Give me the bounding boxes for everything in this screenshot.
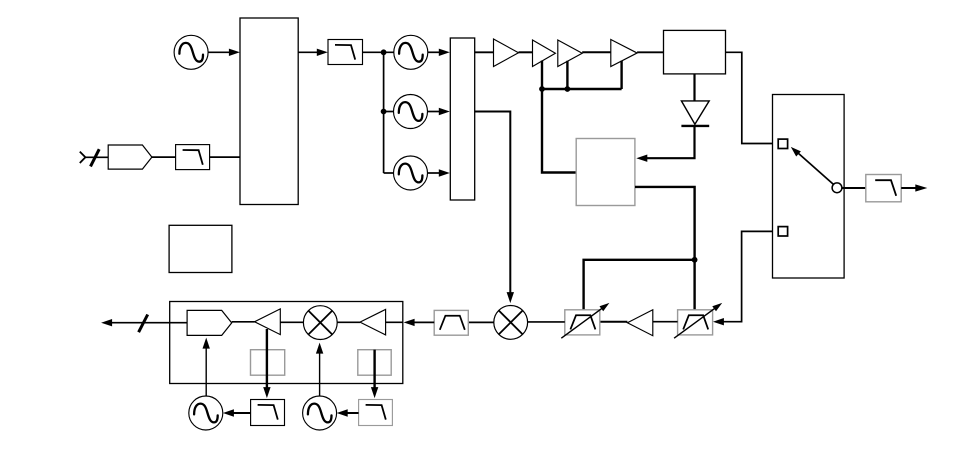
wire switch S1 port 2 to attenuator AT2 input: [723, 231, 773, 321]
wire U1 to filter F2: [298, 51, 317, 53]
switch S1 contact square 1: [778, 139, 787, 148]
wire D1 to ALC U4: [647, 126, 695, 158]
variable attenuator AT2: [678, 310, 713, 335]
input chevron (off-page connector): [80, 152, 86, 163]
wire A4 to buffer A5: [582, 51, 611, 53]
mixer M1: [494, 306, 528, 340]
output driver A9 (pentagon): [187, 310, 232, 335]
wire AT1 to mixer M1: [528, 321, 565, 323]
wire to G3: [384, 111, 394, 113]
oscillator G4: [394, 156, 428, 190]
wire feedback down to ALC U4: [542, 89, 576, 173]
wire AT2 to amplifier A6: [653, 321, 678, 323]
variable attenuator AT1: [565, 310, 600, 335]
buffer amplifier A5: [611, 40, 637, 67]
junction node feedback 1: [539, 86, 545, 92]
low-pass filter F4: [251, 400, 285, 426]
divider block X1: [251, 350, 285, 376]
output wire with arrow: [901, 187, 916, 189]
wire osc G5 up to A9: [205, 348, 207, 396]
wire M2 to amplifier A8: [280, 321, 303, 323]
output wire with arrow: [111, 322, 170, 324]
wire to G4: [384, 172, 394, 174]
switch S1 pole circle: [832, 183, 842, 193]
wire F3 to demodulator box: [414, 321, 434, 323]
spare block U5: [169, 225, 232, 272]
junction node feedback 2: [565, 86, 571, 92]
wire F1 to modulator block: [210, 156, 240, 158]
wire A1 to filter F1: [152, 156, 176, 158]
wire A8 down through X1 to filter F4: [266, 329, 268, 388]
synthesizer block U2: [450, 38, 474, 200]
wire A9 to output: [170, 322, 187, 324]
oscillator G1: [174, 35, 208, 69]
feedback tap from A3: [541, 61, 543, 90]
wire AGC bus to attenuator AT1: [584, 260, 695, 310]
junction node at G3 branch: [381, 109, 387, 115]
wire M1 to band-pass filter F3: [468, 321, 494, 323]
switch S1 lever: [795, 150, 834, 184]
buffer amplifier A2: [494, 39, 519, 67]
wire branch down to G3 and G4: [383, 52, 385, 173]
feedback tap from A4: [566, 61, 568, 89]
demodulator box outline: [170, 302, 403, 384]
preamp A1 (pentagon): [108, 145, 152, 169]
wire G3 to synthesizer U2: [428, 111, 440, 113]
buffer amplifier A4: [558, 40, 582, 67]
junction node AGC bus: [692, 257, 698, 263]
wire A5 to PA block U3: [637, 51, 663, 53]
wire U2 LO output down to mixer M1: [475, 112, 511, 293]
band-pass filter F3: [434, 310, 468, 335]
wire S1 to output filter F6: [842, 187, 866, 189]
wire U3 to detector diode D1: [693, 74, 695, 102]
bus slash on input: [91, 149, 100, 166]
wire X2 down to filter F5: [373, 350, 375, 388]
buffer amplifier A3: [533, 40, 556, 67]
divider block X2: [358, 350, 391, 376]
wire osc G6 up to M2: [319, 353, 321, 396]
low-pass filter F5: [359, 400, 393, 426]
wire A6 to attenuator AT1: [600, 321, 628, 323]
oscillator G3: [394, 95, 428, 129]
amplifier A7: [360, 309, 386, 335]
mixer M2: [303, 306, 337, 340]
wire osc1 to modulator block: [208, 51, 229, 53]
wire G4 to synthesizer U2: [428, 172, 440, 174]
PA block U3: [664, 30, 726, 74]
wire A8 to output driver A9: [232, 321, 255, 323]
modulator block U1: [240, 18, 298, 205]
wire U4 AGC output to attenuator bus: [635, 187, 695, 310]
low-pass filter F1: [176, 145, 210, 170]
antenna switch S1 outline: [773, 95, 845, 279]
low-pass filter F6: [866, 175, 901, 202]
oscillator G5: [189, 396, 223, 430]
junction node at F2 output: [381, 49, 387, 55]
feedback bus wire: [541, 88, 622, 90]
oscillator G2: [394, 35, 428, 69]
switch S1 contact square 2: [778, 227, 787, 236]
wire F4 to G5: [234, 412, 251, 414]
ALC control block U4: [576, 139, 635, 206]
amplifier A6: [627, 310, 652, 336]
wire F2 to oscillator G2 with branch node: [363, 51, 394, 53]
amplifier A8: [255, 309, 281, 335]
wire A2 to buffer A3: [519, 51, 533, 53]
wire box edge to amplifier A7: [386, 321, 403, 323]
detector diode D1: [681, 101, 709, 124]
wire U3 output to switch S1 port 1: [726, 52, 773, 143]
oscillator G6: [303, 396, 337, 430]
wire U2 to buffer A2: [475, 51, 494, 53]
wire input to preamp A1: [85, 156, 108, 158]
bus slash on output: [139, 315, 148, 333]
wire F5 to G6: [347, 412, 358, 414]
feedback tap from A5: [620, 61, 622, 89]
wire A7 to mixer M2: [337, 321, 360, 323]
wire G2 to synthesizer U2: [428, 51, 439, 53]
low-pass filter F2: [328, 40, 363, 65]
